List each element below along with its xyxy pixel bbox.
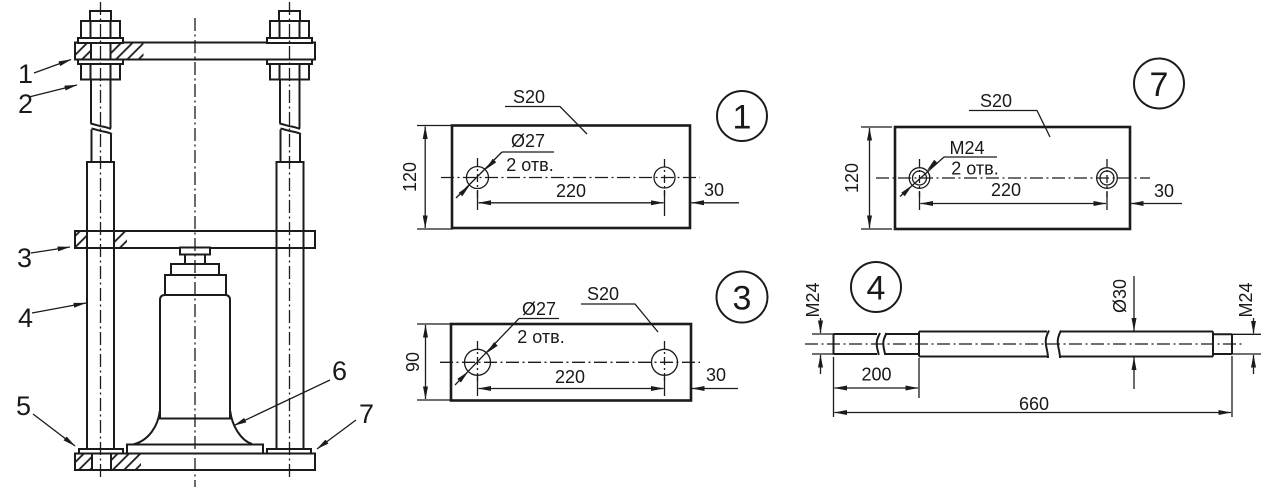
200 dimension	[833, 357, 835, 398]
circled 3	[717, 272, 768, 323]
right threaded rod lower segment	[280, 130, 282, 163]
bottom plate hatching left	[76, 455, 92, 470]
right hole	[654, 167, 675, 188]
120 dimension	[417, 125, 453, 127]
top plate hatching right of rod	[111, 44, 144, 59]
rod edges through top plate	[90, 43, 92, 60]
svg-text:M24: M24	[1236, 282, 1256, 317]
plate outline	[452, 126, 690, 229]
svg-text:Ø27: Ø27	[511, 131, 545, 151]
right rod top stub	[279, 11, 300, 21]
svg-text:S20: S20	[513, 87, 545, 107]
middle plate hatching right of tube	[114, 232, 127, 247]
right lower washer	[267, 60, 312, 65]
660 dimension	[833, 398, 835, 417]
hole edges in bottom plate	[91, 454, 93, 471]
left top nut	[81, 21, 120, 38]
circled 4	[851, 262, 901, 312]
svg-text:120: 120	[400, 162, 420, 192]
right top nut	[270, 21, 309, 38]
M24 left dimension	[812, 333, 834, 335]
top plate (item 1)	[75, 43, 315, 60]
rod break left	[877, 333, 880, 355]
svg-text:Ø27: Ø27	[522, 299, 556, 319]
svg-text:220: 220	[556, 181, 586, 201]
120 dimension	[861, 126, 892, 128]
rod break middle	[1046, 331, 1049, 359]
left bottom washer	[79, 449, 123, 454]
svg-text:7: 7	[359, 399, 374, 429]
left lower nut	[81, 64, 120, 80]
left rod break lines	[91, 124, 112, 130]
plate outline	[895, 127, 1130, 229]
svg-text:6: 6	[332, 356, 347, 386]
jack saddle plate	[180, 248, 210, 255]
svg-text:220: 220	[991, 180, 1021, 200]
right top washer	[267, 38, 312, 43]
svg-text:120: 120	[842, 163, 862, 193]
svg-text:220: 220	[555, 367, 585, 387]
jack head block	[165, 275, 226, 295]
right lower nut	[270, 64, 309, 80]
svg-text:M24: M24	[949, 138, 984, 158]
svg-text:M24: M24	[803, 282, 823, 317]
svg-text:1: 1	[18, 59, 33, 89]
svg-text:4: 4	[18, 303, 33, 333]
right M24 hole	[1097, 168, 1118, 189]
jack step block	[171, 264, 219, 275]
220 dimension	[919, 192, 921, 210]
right rod break lines	[280, 124, 301, 130]
left threaded rod upper segment	[90, 80, 92, 124]
jack bell right curve	[230, 411, 252, 444]
circled 1	[717, 91, 767, 141]
horizontal centerline	[441, 177, 700, 179]
rod M24 left segment 2	[885, 333, 919, 335]
right rod centerline	[289, 2, 291, 477]
jack cylinder body	[160, 295, 230, 419]
svg-text:30: 30	[704, 180, 724, 200]
bottom plate (item 7)	[75, 454, 315, 471]
svg-text:4: 4	[867, 270, 886, 308]
jack base flange	[127, 445, 263, 454]
rod M24 right end	[1213, 333, 1232, 335]
220 dimension	[477, 191, 479, 210]
right hole	[652, 349, 678, 375]
circled 7	[1134, 59, 1184, 109]
left rod centerline	[100, 2, 102, 477]
bottom plate hatching right of hole	[111, 455, 141, 470]
30 dimension	[1131, 203, 1182, 205]
svg-text:2 отв.: 2 отв.	[951, 159, 998, 179]
rod left end	[833, 334, 835, 354]
left hole	[467, 167, 489, 189]
svg-text:5: 5	[16, 391, 31, 421]
svg-text:S20: S20	[587, 284, 619, 304]
svg-text:660: 660	[1019, 394, 1049, 414]
svg-text:Ø30: Ø30	[1110, 279, 1130, 313]
svg-text:30: 30	[706, 365, 726, 385]
svg-text:2 отв.: 2 отв.	[517, 327, 564, 347]
rod step left	[918, 332, 920, 357]
left top washer	[78, 38, 123, 43]
top plate hatching left	[76, 44, 91, 59]
middle plate (item 3)	[75, 231, 315, 248]
svg-text:3: 3	[733, 280, 752, 318]
D30 dimension	[1133, 276, 1135, 331]
svg-text:3: 3	[17, 243, 32, 273]
left M24 hole	[909, 168, 930, 189]
svg-text:2: 2	[18, 89, 33, 119]
left lower washer	[78, 60, 123, 65]
right tube (spacer pipe)	[277, 162, 304, 450]
M24 right dimension	[1232, 333, 1261, 335]
svg-text:2 отв.: 2 отв.	[506, 155, 553, 175]
press vertical axis centerline	[194, 18, 196, 487]
svg-text:7: 7	[1150, 66, 1169, 104]
rod step right	[1212, 332, 1214, 357]
90 dimension	[417, 323, 452, 325]
left rod top stub	[90, 11, 111, 21]
horizontal centerline	[440, 361, 700, 363]
horizontal centerline	[876, 177, 1150, 179]
svg-text:1: 1	[733, 99, 752, 137]
220 dimension	[477, 377, 479, 396]
middle plate hatching left	[76, 232, 87, 247]
left tube (spacer pipe item 4)	[87, 162, 114, 450]
svg-text:S20: S20	[980, 91, 1012, 111]
jack screw stub	[185, 255, 205, 265]
jack bell left curve	[133, 411, 160, 445]
right bottom washer	[267, 449, 311, 454]
30 dimension	[692, 202, 740, 204]
rod D30 left section	[919, 331, 1047, 333]
svg-text:90: 90	[403, 352, 423, 372]
right threaded rod upper segment	[279, 80, 281, 124]
left threaded rod lower segment	[91, 130, 93, 163]
rod centerline	[805, 343, 1245, 345]
plate outline	[451, 324, 691, 401]
rod D30 right section	[1060, 331, 1213, 333]
svg-text:30: 30	[1154, 181, 1174, 201]
30 dimension	[692, 388, 738, 390]
left hole	[465, 349, 491, 375]
svg-text:200: 200	[861, 365, 891, 385]
